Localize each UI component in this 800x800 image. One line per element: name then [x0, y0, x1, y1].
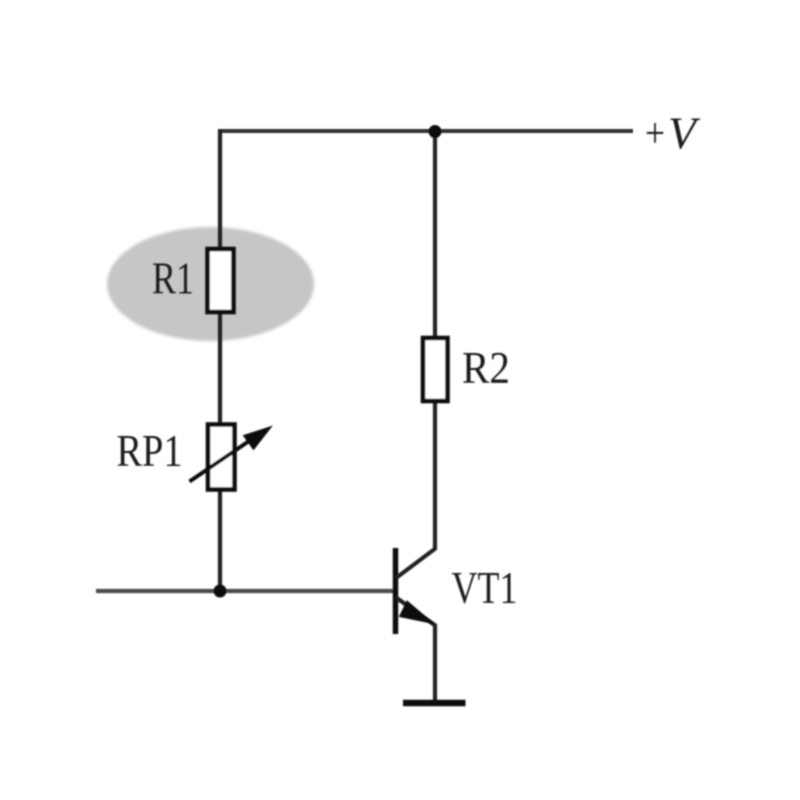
transistor VT1 [396, 548, 437, 701]
svg-text:+: + [645, 111, 665, 157]
ground [403, 700, 466, 707]
emitter arrowhead [400, 601, 434, 624]
resistor R2 [423, 338, 448, 401]
svg-text:RP1: RP1 [117, 426, 183, 476]
resistor R1 [208, 249, 234, 312]
potentiometer RP1 body [208, 425, 235, 490]
node junction dot top [429, 125, 442, 138]
svg-text:VT1: VT1 [452, 563, 518, 613]
svg-text:R2: R2 [462, 343, 510, 393]
base bar [393, 548, 399, 634]
potentiometer RP1 arrow [190, 427, 272, 482]
emitter lead down [433, 624, 437, 701]
wire right vertical: rail to R2 [433, 129, 437, 340]
wire left vertical: rail to R1 [218, 129, 222, 251]
wire RP1 to base node [218, 488, 222, 591]
svg-text:V: V [668, 108, 701, 159]
node junction dot left [214, 585, 227, 598]
wire base horizontal [96, 589, 393, 593]
highlight ellipse around R1 [107, 227, 314, 341]
wire R1 to RP1 [218, 310, 222, 427]
wire top rail [222, 129, 633, 133]
emitter diagonal [396, 598, 436, 627]
svg-text:R1: R1 [152, 254, 194, 304]
collector diagonal [396, 548, 436, 578]
wire R2 to collector [433, 399, 437, 549]
